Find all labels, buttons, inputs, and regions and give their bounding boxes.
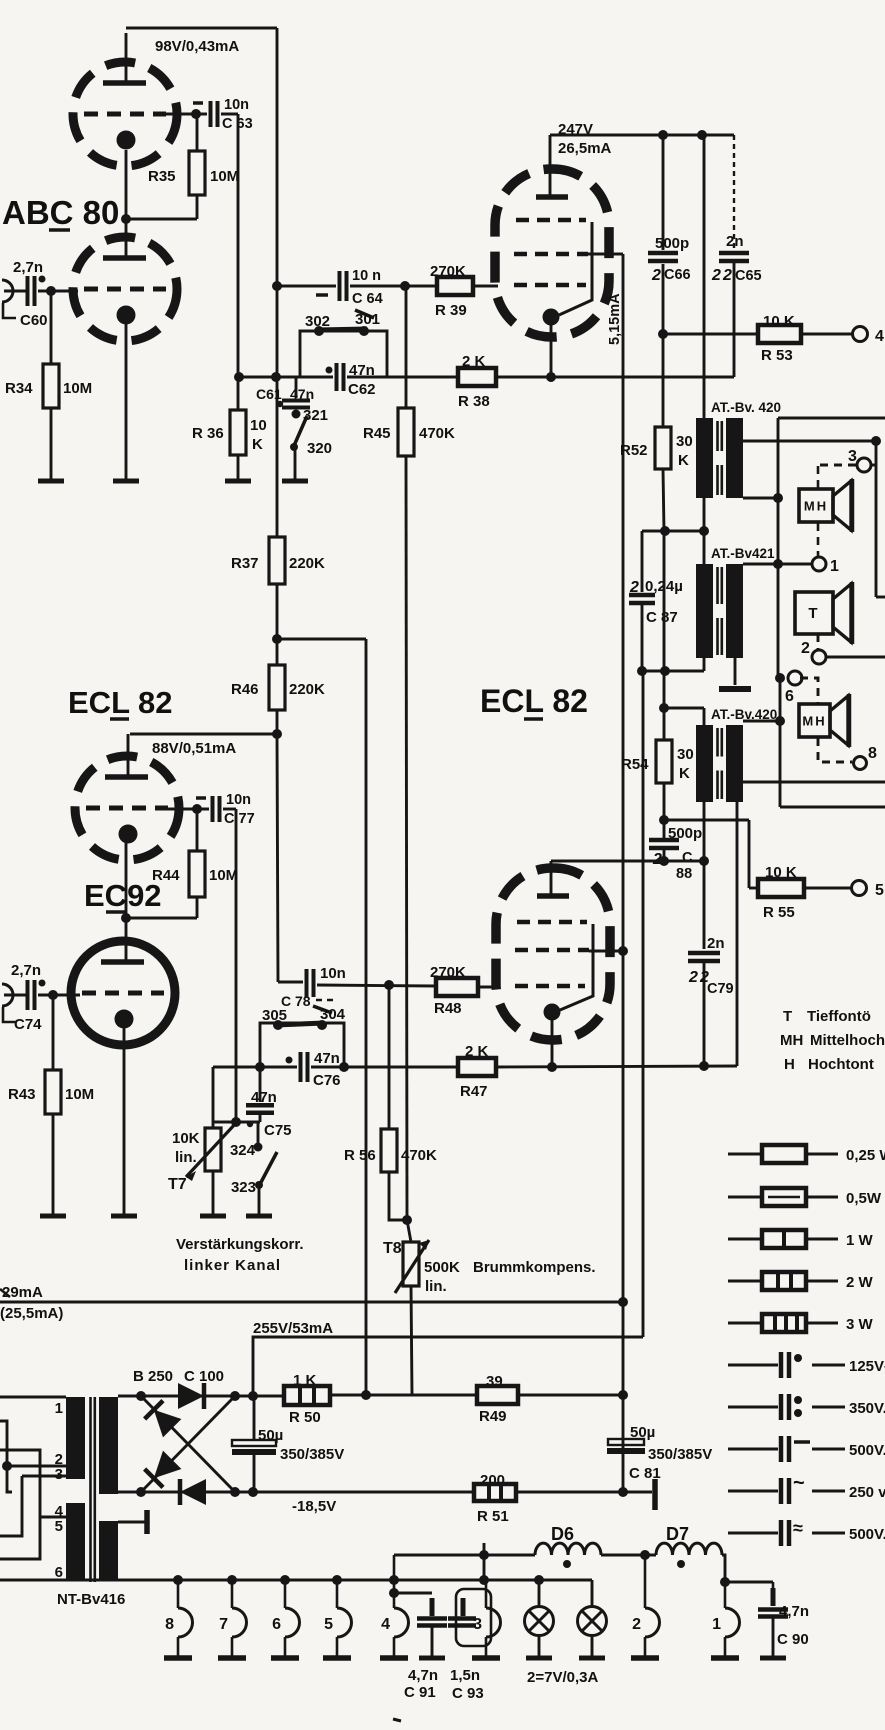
- capacitor C64 10n: [338, 271, 342, 301]
- wire: R52/R54 branch x=665: [663, 531, 666, 708]
- svg-text:C62: C62: [348, 381, 376, 398]
- node: bus at x=232: [227, 1575, 237, 1585]
- wire: T1 secondary top: [743, 440, 876, 443]
- svg-text:ECL 82: ECL 82: [68, 685, 173, 720]
- svg-text:(25,5mA): (25,5mA): [0, 1305, 63, 1322]
- node: bus at x=285: [280, 1575, 290, 1585]
- node: V2b grid / R43: [48, 990, 58, 1000]
- node: pin2 junction: [2, 1461, 12, 1471]
- pilot lamp 1: [525, 1580, 554, 1658]
- svg-text:R34: R34: [5, 380, 33, 397]
- node: switch frame right: [339, 1062, 349, 1072]
- marker dot C76: [286, 1057, 293, 1064]
- node: V1a cathode / V1b anode: [121, 214, 131, 224]
- wire: R48 to V4 g1: [478, 986, 498, 989]
- svg-text:29mA: 29mA: [2, 1284, 43, 1301]
- wire: 323 to ground: [258, 1186, 261, 1216]
- resistor R55 10K: [758, 879, 804, 897]
- svg-text:D7: D7: [666, 1524, 689, 1544]
- wire: 255V rail: [253, 1337, 643, 1395]
- wire: C61 node to C62: [239, 376, 333, 379]
- wire: T7 branch to C76: [213, 1066, 297, 1069]
- svg-text:10n: 10n: [224, 97, 249, 113]
- node: rail / screen line: [618, 1297, 628, 1307]
- legend capacitor 500V.: [728, 1518, 885, 1546]
- wire: V1a grid to C63: [166, 113, 207, 116]
- svg-text:5: 5: [875, 882, 884, 899]
- wire: T3 secondary bottom to edge: [743, 781, 885, 784]
- svg-text:47n: 47n: [251, 1089, 277, 1106]
- svg-text:2 W: 2 W: [846, 1274, 874, 1291]
- svg-text:10: 10: [250, 417, 267, 434]
- svg-text:10 K: 10 K: [765, 864, 797, 881]
- wire: riser to T3 secondary bottom: [736, 802, 739, 1066]
- svg-text:R 53: R 53: [761, 347, 793, 364]
- wire: R35 bottom lead: [196, 195, 199, 219]
- node: C88 bottom / anode wire: [659, 856, 669, 866]
- wire: riser to R55: [749, 887, 758, 890]
- wire: C80 top lead: [253, 1396, 256, 1440]
- capacitor C81 50u: [608, 1439, 644, 1445]
- wire: 247V to C65 (dotted): [733, 135, 735, 251]
- node: T2 secondary / common: [773, 559, 783, 569]
- wire: R37 to R46: [276, 584, 279, 665]
- wire: 29mA supply rail: [0, 1301, 623, 1304]
- wire: dashed T to terminal 2: [817, 634, 820, 649]
- svg-text:255V/53mA: 255V/53mA: [253, 1320, 333, 1337]
- svg-text:ECL 82: ECL 82: [480, 683, 588, 719]
- svg-text:4,7n: 4,7n: [408, 1667, 438, 1684]
- V4 cathode: [544, 1004, 561, 1021]
- wire: terminal 2 to edge: [826, 656, 885, 659]
- svg-text:2: 2: [651, 267, 661, 284]
- wire: C75 bottom lead: [259, 1113, 262, 1122]
- svg-text:8: 8: [868, 745, 877, 762]
- svg-text:500p: 500p: [668, 825, 702, 842]
- resistor R45 470K: [398, 408, 414, 456]
- svg-text:1: 1: [55, 1400, 63, 1417]
- svg-text:T: T: [808, 605, 819, 622]
- node: R54 line crossing: [660, 666, 670, 676]
- wire: R55 riser: [748, 820, 751, 888]
- wire: V4 cathode lead: [551, 1020, 554, 1067]
- svg-text:4: 4: [381, 1616, 390, 1633]
- terminal 5 (strip): [323, 1580, 352, 1658]
- svg-text:C66: C66: [664, 267, 691, 283]
- node: anode / T3 primary / C79: [699, 856, 709, 866]
- wire: C88 bottom lead: [663, 850, 666, 861]
- svg-text:R45: R45: [363, 425, 391, 442]
- svg-text:2,7n: 2,7n: [13, 259, 43, 276]
- resistor R49 box: [477, 1386, 518, 1404]
- T7 wiper arrow: [186, 1123, 236, 1177]
- capacitor C75 plates: [246, 1103, 274, 1108]
- wire: switch 302/301 frame: [300, 331, 387, 377]
- capacitor C65 plates: [719, 251, 749, 256]
- wire: R44 top lead: [196, 812, 199, 851]
- wire: R46 bottom lead: [276, 710, 279, 734]
- wire: R34 top lead: [50, 294, 53, 364]
- svg-text:5,15mA: 5,15mA: [607, 293, 623, 345]
- terminal 3 (strip): [472, 1580, 501, 1658]
- capacitor C74 2,7n: [26, 980, 30, 1010]
- svg-text:1 W: 1 W: [846, 1232, 874, 1249]
- svg-text:88V/0,51mA: 88V/0,51mA: [152, 740, 236, 757]
- svg-text:10M: 10M: [209, 867, 238, 884]
- capacitor C77 10n: [211, 796, 215, 822]
- svg-text:AT.-Bv. 420: AT.-Bv. 420: [711, 400, 781, 415]
- wire: C75 to T7 wiper line: [213, 1121, 260, 1124]
- node: C91 tap: [389, 1588, 399, 1598]
- node: R49 / screen line: [618, 1390, 628, 1400]
- svg-text:10 n: 10 n: [352, 268, 381, 284]
- svg-text:220K: 220K: [289, 555, 325, 572]
- wire: bridge diagonal B: [141, 1396, 235, 1492]
- wire: switch 305/304 frame: [260, 1023, 344, 1066]
- terminal 1 (strip): [711, 1582, 740, 1658]
- contact 321: [292, 410, 301, 419]
- capacitor C61 plates: [282, 399, 310, 403]
- svg-text:5: 5: [324, 1616, 333, 1633]
- svg-text:R35: R35: [148, 168, 176, 185]
- svg-text:Brummkompens.: Brummkompens.: [473, 1259, 596, 1276]
- grid g2 V4: [515, 948, 589, 953]
- svg-text:ABC 80: ABC 80: [2, 194, 119, 231]
- terminal 8: [854, 757, 867, 770]
- choke D7 coil: [656, 1543, 722, 1555]
- wire: C66 bottom lead: [662, 264, 665, 334]
- wire: cathode line to C65: [496, 376, 734, 379]
- node: C64 / R45 top: [400, 281, 410, 291]
- node: B+ rail / C87 bottom: [637, 666, 647, 676]
- svg-text:323: 323: [231, 1179, 256, 1196]
- capacitor C87 plates: [629, 593, 655, 598]
- svg-text:C74: C74: [14, 1016, 42, 1033]
- wire: dashed MH to terminal 8: [818, 738, 852, 762]
- svg-text:R 56: R 56: [344, 1147, 376, 1164]
- wire: C77 right lead: [223, 808, 236, 811]
- grid g2 V3: [514, 252, 588, 257]
- resistor R54 30K: [656, 740, 672, 783]
- wire: V2a grid to C77: [168, 808, 209, 811]
- resistor R46 220K: [269, 665, 285, 710]
- wire: C63 to vertical x=238: [221, 113, 238, 116]
- node: R54 top / T3 primary top: [659, 703, 669, 713]
- wire: R54 bottom lead: [663, 783, 666, 820]
- legend capacitor 250 v: [728, 1472, 885, 1504]
- wire: to C90: [725, 1581, 773, 1584]
- contact 301: [359, 326, 369, 336]
- pilot lamp 2: [578, 1580, 607, 1658]
- wire: T2 secondary top to terminal 1: [743, 563, 812, 566]
- node: D6 / terminal 4 branch: [479, 1550, 489, 1560]
- wire: T1 primary bottom to T2 primary top: [703, 498, 706, 564]
- node: T3 secondary / tap line: [775, 716, 785, 726]
- svg-text:C61: C61: [256, 386, 282, 402]
- ground: V1b cathode: [113, 479, 139, 484]
- svg-text:6: 6: [55, 1564, 63, 1581]
- contact 302: [314, 326, 324, 336]
- choke D6 coil: [535, 1543, 601, 1555]
- ground: C91: [419, 1656, 445, 1661]
- node: D6/D7 to terminal 2: [640, 1550, 650, 1560]
- svg-text:C 91: C 91: [404, 1684, 436, 1701]
- wire: heater centre tap: [118, 1521, 145, 1524]
- node: R56 top: [384, 980, 394, 990]
- svg-text:Mittelhoch: Mittelhoch: [810, 1032, 885, 1049]
- svg-text:10n: 10n: [320, 965, 346, 982]
- wire: tap vertical: [779, 678, 782, 807]
- wire: T7 bottom lead: [212, 1171, 215, 1216]
- node: R52 bottom: [660, 526, 670, 536]
- svg-text:0,5W: 0,5W: [846, 1190, 882, 1207]
- node: bus x=277 on C62 wire: [271, 372, 281, 382]
- wire: R53 to terminal 4: [801, 333, 852, 336]
- svg-text:C: C: [682, 850, 693, 866]
- node: C66 / R53: [658, 329, 668, 339]
- node: V2a cathode / V2b anode / R44: [121, 913, 131, 923]
- wire: C60 to V1b grid: [38, 290, 78, 293]
- wire: V2b cathode to ground: [123, 1027, 126, 1216]
- svg-text:2,7n: 2,7n: [11, 962, 41, 979]
- terminal 2 (strip): [631, 1555, 660, 1658]
- svg-text:3: 3: [848, 448, 857, 465]
- wire: R50 to R49: [330, 1394, 477, 1397]
- node: terminal 1 / C90: [720, 1577, 730, 1587]
- capacitor C66 plates: [648, 251, 678, 256]
- svg-text:8: 8: [165, 1616, 174, 1633]
- speaker MH (upper): [799, 479, 852, 532]
- resistor R38 2K: [458, 368, 496, 386]
- svg-text:10M: 10M: [210, 168, 239, 185]
- wire: pin1: [0, 1396, 66, 1399]
- wire: C79 bottom lead: [703, 963, 706, 1066]
- node: V1b grid / R34: [46, 286, 56, 296]
- wire: V4 anode to transformer primary: [551, 860, 704, 863]
- svg-text:301: 301: [355, 311, 380, 328]
- wire: dashed to terminal 3: [820, 464, 856, 467]
- wire: screen/supply line x=623: [622, 254, 625, 1493]
- wire: heater / terminal bus: [0, 1579, 592, 1582]
- svg-text:MH: MH: [802, 714, 826, 729]
- svg-text:2: 2: [711, 267, 721, 284]
- node: bridge TL: [136, 1391, 146, 1401]
- capacitor C91 plates: [417, 1616, 447, 1621]
- wire: C90 to ground: [772, 1617, 775, 1658]
- wire: C75 top lead: [259, 1067, 262, 1102]
- svg-text:C 87: C 87: [646, 609, 678, 626]
- diode bridge diagonal B: [154, 1451, 182, 1479]
- grid g3 V4: [517, 920, 587, 925]
- input terminal upper channel: [2, 280, 13, 302]
- wire: C65 to cathode line: [733, 263, 736, 377]
- wire: pin2: [7, 1465, 66, 1468]
- svg-text:30: 30: [677, 746, 694, 763]
- svg-text:2: 2: [629, 579, 639, 596]
- svg-text:270K: 270K: [430, 964, 466, 981]
- wire: V1a cathode lead: [125, 150, 128, 219]
- wire: V4 g3 tie to cathode: [560, 924, 593, 1010]
- wire: primary junction to C87 top: [642, 530, 704, 533]
- wire: B+ rail vertical x=643: [642, 671, 645, 1337]
- capacitor C90 4,7n: [771, 1588, 776, 1606]
- marker dot C60: [39, 276, 46, 283]
- switch arrow 301: [355, 310, 374, 318]
- resistor R43 10M: [45, 1070, 61, 1114]
- resistor R47 2K: [458, 1058, 496, 1076]
- svg-text:T: T: [783, 1008, 792, 1025]
- wire: anode node down to C78: [277, 734, 278, 982]
- node: T1 secondary bottom / common: [773, 493, 783, 503]
- svg-text:10M: 10M: [65, 1086, 94, 1103]
- capacitor C79 plates: [688, 951, 720, 956]
- svg-text:47n: 47n: [314, 1050, 340, 1067]
- svg-text:321: 321: [303, 407, 328, 424]
- svg-text:Hochtont: Hochtont: [808, 1056, 874, 1073]
- wire: R49 to screen line: [518, 1394, 625, 1397]
- svg-text:T7: T7: [168, 1176, 187, 1193]
- wire: C61 stem: [295, 377, 298, 398]
- svg-text:500V.: 500V.: [849, 1526, 885, 1543]
- node: V2a grid / R44: [192, 804, 202, 814]
- svg-text:10 K: 10 K: [763, 313, 795, 330]
- resistor R44 10M: [189, 851, 205, 897]
- svg-text:H: H: [784, 1056, 795, 1073]
- wire: dashed terminal 6 to MH: [800, 678, 818, 703]
- wire: V1b cathode to ground: [125, 323, 128, 481]
- node: bus at x=178: [173, 1575, 183, 1585]
- wire: R34 bottom lead: [50, 408, 53, 481]
- node: 247V / output transformer primary: [697, 130, 707, 140]
- wire: input to C60: [4, 290, 26, 293]
- marker dot C74: [39, 980, 46, 987]
- svg-text:6: 6: [785, 688, 794, 705]
- svg-text:2: 2: [801, 640, 810, 657]
- ground: switch 323: [246, 1214, 272, 1219]
- wire: R43 bottom lead: [52, 1114, 55, 1216]
- svg-text:B 250: B 250: [133, 1368, 173, 1385]
- legend resistor 3 W: [728, 1314, 874, 1333]
- wire: R56 top lead: [388, 985, 391, 1129]
- svg-text:C 81: C 81: [629, 1465, 661, 1482]
- wire: to R55 riser: [664, 819, 749, 822]
- svg-text:3: 3: [55, 1466, 63, 1483]
- wire: C87 top lead: [641, 531, 644, 592]
- svg-text:C 64: C 64: [352, 291, 383, 307]
- minus mark at C64: [316, 293, 328, 297]
- node: R37/R46 junction: [272, 634, 282, 644]
- resistor R36 10K: [230, 410, 246, 455]
- capacitor C78 10n: [305, 969, 309, 997]
- wire: T3 secondary top: [743, 720, 780, 723]
- svg-text:10M: 10M: [63, 380, 92, 397]
- svg-text:304: 304: [320, 1006, 346, 1023]
- svg-text:270K: 270K: [430, 263, 466, 280]
- transformer AT-Bv.420 (top): [696, 400, 781, 498]
- grid g3 V3: [516, 218, 586, 223]
- legend resistor 0,25 W: [728, 1145, 885, 1164]
- svg-text:2=7V/0,3A: 2=7V/0,3A: [527, 1669, 598, 1686]
- ground: R43: [40, 1214, 66, 1219]
- contact 324: [254, 1143, 263, 1152]
- svg-text:lin.: lin.: [425, 1278, 447, 1295]
- wire: R39 to pentode V3 g1: [473, 285, 498, 288]
- wire: V4 anode lead: [550, 861, 553, 896]
- svg-text:R 36: R 36: [192, 425, 224, 442]
- terminal 4: [853, 327, 868, 342]
- resistor R48 270K: [436, 978, 478, 996]
- svg-text:C60: C60: [20, 312, 48, 329]
- wire: 98V supply to V1 anode: [126, 27, 277, 30]
- node: R45 / R56 / T8: [402, 1215, 412, 1225]
- wire: T2 secondary bottom to ground: [734, 658, 737, 685]
- legend resistor 1 W: [728, 1230, 874, 1249]
- svg-text:250 v: 250 v: [849, 1484, 885, 1501]
- resistor R56 470K: [381, 1129, 397, 1172]
- transformer NT-Bv416: [66, 1397, 118, 1582]
- svg-text:~: ~: [793, 1472, 805, 1494]
- wire: R36 top lead: [237, 380, 240, 410]
- node: 255V riser: [248, 1391, 258, 1401]
- svg-text:50µ: 50µ: [630, 1424, 655, 1441]
- wire: down to speaker network: [875, 441, 878, 597]
- contact 304: [317, 1020, 327, 1030]
- wire: T8 bottom lead: [411, 1286, 412, 1395]
- wire: V4 g2 to screen line: [589, 950, 623, 953]
- contact 305: [273, 1020, 283, 1030]
- wire: R45 top lead: [405, 286, 408, 408]
- svg-text:2n: 2n: [707, 935, 725, 952]
- svg-text:NT-Bv416: NT-Bv416: [57, 1591, 125, 1608]
- svg-text:0,25 W: 0,25 W: [846, 1147, 885, 1164]
- wire: R56 bottom jog: [389, 1172, 408, 1220]
- wire: to R53: [663, 333, 758, 336]
- contact 320: [290, 443, 298, 451]
- terminal 8 (strip): [164, 1580, 193, 1658]
- wire: primary top lead T1: [703, 135, 706, 418]
- wire: V2a cathode to V2b anode: [125, 842, 128, 962]
- svg-text:88: 88: [676, 866, 692, 882]
- svg-text:350/385V: 350/385V: [280, 1446, 344, 1463]
- wire: T3 primary top lead: [703, 708, 706, 725]
- svg-text:lin.: lin.: [175, 1149, 197, 1166]
- wire: V3 g3 tie to cathode: [559, 222, 592, 315]
- svg-text:R48: R48: [434, 1000, 462, 1017]
- svg-text:10K: 10K: [172, 1130, 200, 1147]
- node: C81 / ground wire: [618, 1487, 628, 1497]
- svg-text:≈: ≈: [793, 1518, 803, 1538]
- wire: R35 top lead: [196, 117, 199, 151]
- wire: C77 coupling line down: [235, 809, 238, 1122]
- wire: C78 to R48: [317, 985, 436, 986]
- capacitor C93 1,5n with shield box: [456, 1589, 491, 1646]
- svg-text:C 90: C 90: [777, 1631, 809, 1648]
- wire: C91 to ground: [431, 1626, 434, 1658]
- svg-text:R 55: R 55: [763, 904, 795, 921]
- svg-text:C 100: C 100: [184, 1368, 224, 1385]
- svg-text:470K: 470K: [419, 425, 455, 442]
- terminal 6: [788, 671, 802, 685]
- wire: D6 to D7: [601, 1554, 656, 1557]
- wire: to V2a anode: [130, 733, 277, 736]
- node: g2 screen line: [618, 946, 628, 956]
- node: C79 bottom: [699, 1061, 709, 1071]
- wire: to speaker network edge: [876, 596, 885, 599]
- node: V3 cathode / R38 wire: [546, 372, 556, 382]
- wire: pin3: [22, 1475, 66, 1478]
- svg-text:R46: R46: [231, 681, 259, 698]
- wire: terminal 4 to C91: [394, 1592, 432, 1595]
